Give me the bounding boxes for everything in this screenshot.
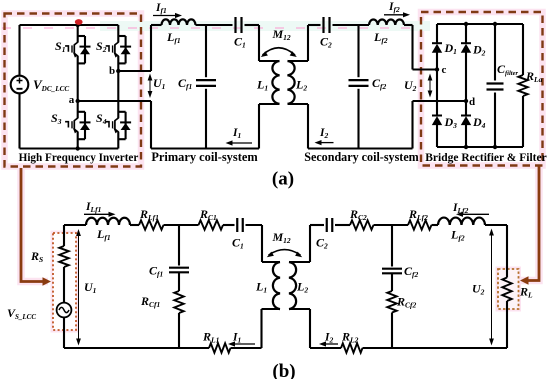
svg-text:a: a — [69, 94, 75, 106]
svg-text:(a): (a) — [272, 169, 294, 190]
svg-text:High Frequency Inverter: High Frequency Inverter — [19, 152, 139, 164]
svg-text:Secondary coil-system: Secondary coil-system — [304, 150, 419, 164]
svg-text:d: d — [469, 96, 475, 108]
svg-text:Bridge Rectifier & Filter: Bridge Rectifier & Filter — [425, 152, 546, 164]
svg-text:Primary coil-system: Primary coil-system — [151, 150, 258, 164]
svg-text:c: c — [442, 64, 447, 76]
svg-text:(b): (b) — [272, 361, 295, 379]
svg-text:b: b — [109, 65, 115, 77]
